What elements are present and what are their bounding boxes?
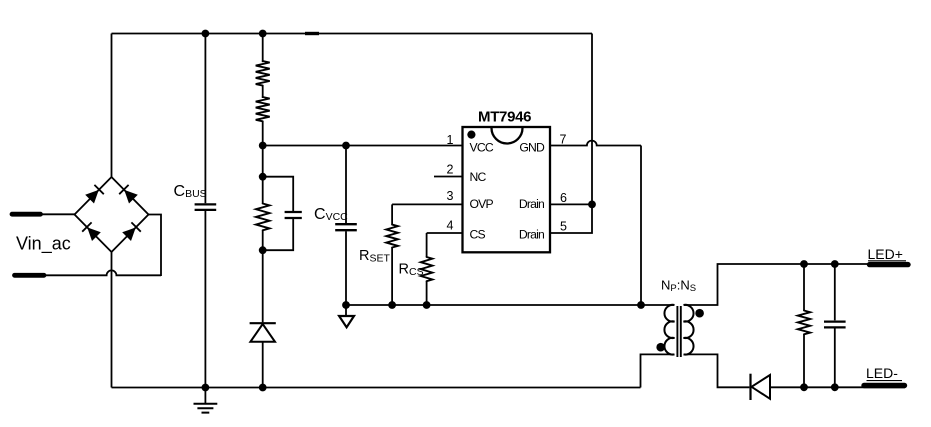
svg-text:Vin_ac: Vin_ac xyxy=(16,234,71,255)
wire pin4 CS net xyxy=(427,232,463,234)
svg-text:VCC: VCC xyxy=(470,140,494,154)
wire ground rail xyxy=(346,304,674,306)
diode D5 cathode lead xyxy=(262,342,264,388)
svg-text:1: 1 xyxy=(447,133,454,147)
resistor R2 xyxy=(256,97,270,121)
transformer T1 secondary winding xyxy=(684,305,694,355)
node junction xyxy=(259,384,267,392)
wire xyxy=(111,252,113,388)
node junction xyxy=(259,246,267,254)
wire pin3 OVP net xyxy=(392,203,462,205)
svg-text:CS: CS xyxy=(470,227,486,241)
resistor R4 top lead xyxy=(803,264,805,311)
diode D3 (bottom to left) xyxy=(87,227,101,241)
wire bottom rail xyxy=(112,387,641,389)
wire pin6 drain xyxy=(550,203,592,205)
svg-text:4: 4 xyxy=(447,218,454,232)
wire xyxy=(149,215,162,277)
svg-text:GND: GND xyxy=(519,140,545,154)
resistor R4 xyxy=(798,311,810,335)
wire overlap segment xyxy=(305,32,319,35)
svg-text:5: 5 xyxy=(560,219,567,233)
svg-text:3: 3 xyxy=(447,189,454,203)
svg-text:Drain: Drain xyxy=(519,227,544,241)
node junction xyxy=(342,301,350,309)
wire xyxy=(44,270,162,275)
wire xyxy=(640,146,642,306)
transformer T1 primary dot xyxy=(656,343,665,352)
svg-text:7: 7 xyxy=(560,132,567,146)
wire xyxy=(591,34,593,205)
node junction xyxy=(202,30,210,38)
resistor R3 bottom lead xyxy=(262,230,264,250)
svg-text:Drain: Drain xyxy=(519,197,544,211)
svg-text:OVP: OVP xyxy=(470,197,494,211)
resistor R3 xyxy=(256,204,270,231)
svg-text:LED-: LED- xyxy=(866,365,898,381)
svg-text:LED+: LED+ xyxy=(868,246,903,262)
ground arrow xyxy=(345,305,347,316)
wire top rail xyxy=(112,33,593,35)
capacitor C2 bottom lead xyxy=(834,329,836,388)
capacitor CBUS xyxy=(195,204,217,210)
diode D1 (left to top) xyxy=(85,190,99,204)
diode D6 xyxy=(749,374,751,400)
node junction xyxy=(800,383,808,391)
svg-text:2: 2 xyxy=(447,162,454,176)
wire primary return xyxy=(641,354,675,387)
capacitor CVCC xyxy=(335,224,357,230)
transformer T1 primary winding xyxy=(664,305,674,355)
wire VCC net xyxy=(263,145,463,147)
bridge rectifier frame xyxy=(75,177,149,252)
resistor RCS xyxy=(421,257,433,281)
node junction xyxy=(800,260,808,268)
wire xyxy=(262,86,264,98)
svg-text:MT7946: MT7946 xyxy=(478,109,531,126)
wire xyxy=(40,213,75,215)
svg-text:NC: NC xyxy=(470,170,487,184)
op-amp U1 MT7946 body xyxy=(463,127,551,252)
transformer T1 core xyxy=(677,306,680,357)
wire pin5 drain xyxy=(550,204,592,233)
wire xyxy=(262,146,264,177)
wire pin7 GND net xyxy=(550,141,641,146)
node junction xyxy=(342,142,350,150)
label LED- underline xyxy=(867,380,903,382)
capacitor CVCC top lead xyxy=(345,146,347,224)
terminal AC input upper xyxy=(12,212,41,217)
capacitor C1 xyxy=(285,212,302,218)
capacitor CBUS top lead xyxy=(204,34,206,204)
node junction xyxy=(588,201,596,209)
node junction xyxy=(202,384,210,392)
terminal AC input lower xyxy=(15,273,45,278)
capacitor C2 xyxy=(824,322,846,328)
node junction xyxy=(259,142,267,150)
capacitor C1 leads xyxy=(263,177,294,251)
resistor R1 top lead xyxy=(262,34,264,63)
diode D5 anode lead xyxy=(262,250,264,322)
node junction xyxy=(831,260,839,268)
wire xyxy=(262,121,264,145)
node junction xyxy=(637,301,645,309)
node junction xyxy=(259,173,267,181)
wire secondary bottom xyxy=(684,354,749,387)
resistor R4 bottom lead xyxy=(803,334,805,387)
node junction xyxy=(259,30,267,38)
resistor RSET top lead xyxy=(391,204,393,224)
resistor RSET bottom lead xyxy=(391,248,393,306)
terminal LED- xyxy=(864,383,905,388)
node junction xyxy=(423,301,431,309)
capacitor CVCC bottom lead xyxy=(345,231,347,305)
label LED+ underline xyxy=(868,260,906,262)
ground earth xyxy=(204,388,206,404)
terminal LED+ xyxy=(870,262,909,267)
diode D2 (right to top) xyxy=(124,190,138,204)
svg-text:6: 6 xyxy=(560,191,567,205)
diode D5 xyxy=(250,322,276,324)
node junction xyxy=(831,383,839,391)
resistor R1 xyxy=(256,61,270,86)
wire xyxy=(111,34,113,178)
transformer T1 secondary dot xyxy=(695,309,704,318)
capacitor CBUS bottom lead xyxy=(204,211,206,388)
diode D4 (bottom to right) xyxy=(122,227,136,241)
wire pin2 NC stub xyxy=(434,176,463,178)
resistor R3 top lead xyxy=(262,177,264,204)
wire secondary top xyxy=(684,264,869,305)
resistor RCS bottom lead xyxy=(426,281,428,305)
capacitor C2 top lead xyxy=(834,264,836,320)
wire LED- rail xyxy=(770,386,905,388)
node junction xyxy=(388,301,396,309)
resistor RCS top lead xyxy=(426,233,428,257)
resistor RSET xyxy=(386,225,398,248)
